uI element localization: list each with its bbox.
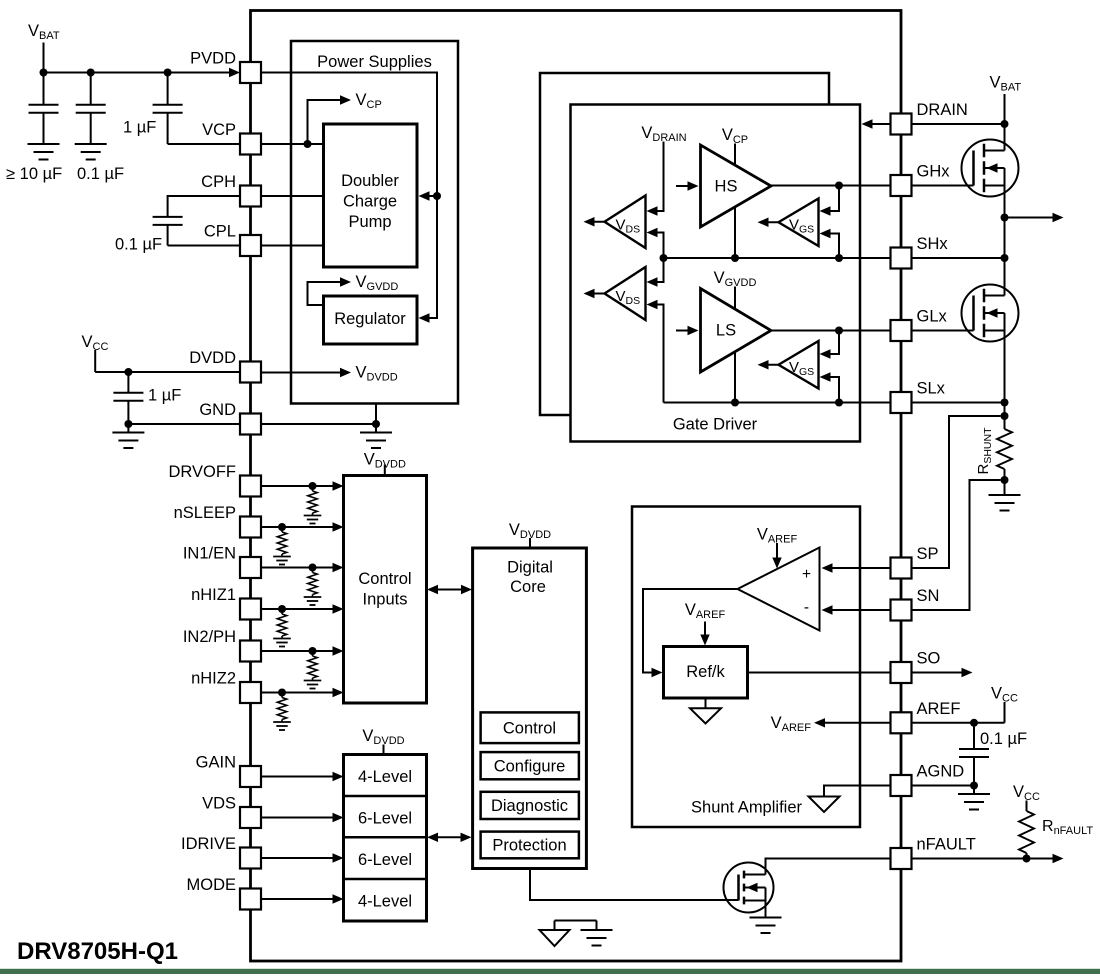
svg-text:6-Level: 6-Level [358, 809, 412, 827]
svg-text:DRVOFF: DRVOFF [168, 463, 236, 481]
regulator label [334, 310, 406, 328]
wire VCC to RnFAULT [1026, 801, 1028, 812]
wire GHx to HS fet gate [911, 185, 974, 187]
ground triangle below refk [690, 698, 721, 724]
node VAREF above sense amp [757, 526, 798, 546]
wire AREF to VAREF arrow [814, 718, 890, 727]
resistor RSHUNT [997, 429, 1012, 469]
level stack divider 3 [344, 878, 427, 881]
pin nSLEEP [240, 517, 261, 538]
svg-text:4-Level: 4-Level [358, 892, 412, 910]
arrowhead SHx into VDS ls [647, 277, 658, 286]
ground below AREF cap [958, 794, 990, 810]
wire RnFAULT to nFAULT line [1026, 853, 1028, 859]
wire flying cap to CPL [168, 225, 240, 246]
wire VBAT to HS fet drain [1004, 94, 1006, 151]
resistor pulldown nHIZ1 [277, 609, 286, 639]
pin label SP [917, 545, 939, 563]
wire VAREF into sense amp [772, 543, 781, 569]
wire GLx to LS fet gate [911, 330, 974, 332]
svg-text:DRAIN: DRAIN [917, 101, 968, 119]
svg-text:SN: SN [917, 587, 940, 605]
arrowhead nHIZ1 into control inputs [333, 604, 344, 613]
transistor nFAULT open drain [724, 863, 774, 913]
pin IN1/EN [240, 557, 261, 578]
junction GLx [835, 327, 843, 335]
digital core label [507, 559, 553, 597]
pin label nHIZ1 [191, 586, 236, 604]
svg-text:AGND: AGND [917, 763, 965, 781]
svg-text:HS: HS [715, 178, 738, 196]
power supplies label [317, 53, 432, 71]
junction on PVDD bus at C2 [87, 69, 95, 77]
vds ls label [616, 288, 641, 307]
ground below C2 [75, 144, 107, 160]
svg-text:VAREF: VAREF [685, 601, 726, 621]
pin VDS [240, 807, 261, 828]
ground below nFAULT fet [750, 918, 782, 934]
node VDVDD above digital core [509, 521, 551, 541]
svg-text:Regulator: Regulator [334, 310, 406, 328]
pin IN2/PH [240, 641, 261, 662]
node VBAT right [990, 74, 1022, 94]
svg-text:DVDD: DVDD [189, 349, 236, 367]
pin MODE [240, 889, 261, 910]
ground below RSHUNT [989, 495, 1021, 511]
label 6-Level VDS [358, 809, 412, 827]
svg-text:VCP: VCP [356, 91, 382, 111]
junction on PVDD bus at C1 [40, 69, 48, 77]
doubler charge pump label [341, 172, 399, 231]
wire VCP to VCP rail label [308, 100, 341, 144]
junction DVDD cap top [124, 368, 132, 376]
protection sub-block label [492, 837, 566, 855]
svg-text:VCC: VCC [991, 685, 1018, 705]
svg-text:nHIZ2: nHIZ2 [191, 670, 236, 688]
vds hs output arrow [584, 217, 605, 226]
node VDVDD rail label [356, 364, 398, 384]
doubler charge pump block U-CP [324, 124, 418, 267]
current sense amp [738, 548, 820, 631]
wire nFAULT fet drain to pin [766, 859, 891, 875]
arrowhead VDVDD rail [340, 368, 351, 377]
svg-text:VCP: VCP [202, 121, 236, 139]
minus input label [804, 599, 809, 616]
pin label SLx [917, 380, 946, 398]
wire AGND to ground triangle [824, 786, 890, 797]
wire VDVDD to digital core [529, 538, 531, 548]
ground below C5 [112, 433, 144, 449]
chip outline DRV8705H-Q1 [251, 11, 902, 962]
svg-text:RSHUNT: RSHUNT [975, 427, 994, 475]
arrowhead IN2/PH into control inputs [333, 646, 344, 655]
gate driver back block [540, 73, 829, 415]
pin label GLx [917, 308, 948, 326]
svg-text:VAREF: VAREF [757, 526, 798, 546]
pin label AGND [917, 763, 965, 781]
vds comparator ls [605, 267, 646, 320]
svg-text:VDVDD: VDVDD [509, 521, 551, 541]
pin label DRAIN [917, 101, 968, 119]
node VCC at nFAULT [1013, 783, 1040, 803]
refk block [664, 647, 748, 699]
wire GAIN to level stack [261, 776, 333, 778]
value label 1uF DVDD [148, 387, 181, 405]
wire SHx pin to phase node [911, 257, 1005, 259]
pin label AREF [917, 700, 961, 718]
node VDRAIN label [641, 124, 686, 144]
junction PVDD feed to doubler [433, 192, 441, 200]
pin IDRIVE [240, 848, 261, 869]
wire nHIZ1 to control inputs [261, 608, 333, 610]
svg-text:PVDD: PVDD [190, 50, 236, 68]
arrowhead nHIZ2 into control inputs [333, 688, 344, 697]
hs driver amp [701, 145, 772, 227]
resistor pulldown DRVOFF [308, 486, 317, 516]
junction AREF cap [970, 719, 978, 727]
svg-text:RnFAULT: RnFAULT [1042, 818, 1093, 837]
wire ground pair link [555, 921, 597, 931]
control sub-block [481, 712, 579, 743]
svg-text:4-Level: 4-Level [358, 768, 412, 786]
junction nSLEEP pulldown [278, 523, 286, 531]
svg-text:Protection: Protection [492, 837, 566, 855]
vgs comparator hs [779, 199, 819, 247]
wire GND pin to cap [128, 423, 240, 425]
node VAREF above refk [685, 601, 726, 621]
wire power supplies block to GND [375, 404, 377, 425]
ground pulldown DRVOFF [304, 516, 322, 524]
wire VBAT to PVDD bus [44, 43, 230, 73]
wire CPH to flying cap [168, 196, 240, 217]
junction nFAULT [1023, 855, 1031, 863]
pin label SHx [917, 235, 949, 253]
pin label GHx [917, 163, 951, 181]
pin label SN [917, 587, 940, 605]
svg-text:VDVDD: VDVDD [364, 451, 406, 471]
vgs hs label [789, 217, 814, 236]
svg-text:VBAT: VBAT [28, 22, 60, 42]
pin label IN2/PH [183, 628, 236, 646]
ground triangle digital [540, 930, 570, 946]
svg-text:Power Supplies: Power Supplies [317, 53, 432, 71]
ground pulldown nHIZ1 [273, 639, 291, 647]
wire VDVDD to level stack [383, 745, 385, 755]
pin SHx [891, 248, 912, 269]
svg-text:0.1 µF: 0.1 µF [115, 236, 162, 254]
svg-text:VDVDD: VDVDD [362, 727, 404, 747]
pin label nSLEEP [174, 504, 236, 522]
svg-text:LS: LS [716, 322, 736, 340]
junction SLx at VGVDD [731, 399, 739, 407]
wire SLx to VDS ls input [657, 305, 664, 403]
svg-text:Inputs: Inputs [363, 591, 408, 609]
wire branch to doubler right [429, 195, 437, 197]
svg-text:1 µF: 1 µF [123, 119, 156, 137]
svg-text:VGVDD: VGVDD [356, 273, 399, 293]
svg-text:SHx: SHx [917, 235, 949, 253]
node VBAT left [28, 22, 60, 42]
wire PVDD internal feed [261, 73, 437, 319]
svg-text:VBAT: VBAT [990, 74, 1022, 94]
arrowhead SN into sense amp [822, 605, 833, 614]
ground pulldown nHIZ2 [273, 722, 291, 730]
node VGVDD rail label [356, 273, 399, 293]
bottom green bar [0, 969, 1100, 974]
pin SLx [891, 392, 912, 413]
arrowhead into regulator right [419, 313, 430, 322]
shunt amplifier block [632, 507, 860, 828]
svg-text:Configure: Configure [494, 757, 566, 775]
svg-text:Core: Core [510, 578, 546, 596]
pin DRAIN [891, 114, 912, 135]
wire HS fet source to SHx [1004, 186, 1006, 259]
junction SHx VDS [660, 254, 668, 262]
pin nHIZ1 [240, 599, 261, 620]
value label 1uF [123, 119, 156, 137]
wire VCC to DVDD line [95, 350, 240, 372]
wire SP kelvin to shunt top [911, 416, 1001, 568]
pin label nHIZ2 [191, 670, 236, 688]
wire nSLEEP to control inputs [261, 526, 333, 528]
control inputs block [344, 476, 427, 704]
wire SHx to VDS ls input [657, 258, 664, 282]
junction GND [372, 420, 380, 433]
pin nHIZ2 [240, 682, 261, 703]
junction VCP branch [304, 140, 312, 148]
pin GHx [891, 175, 912, 196]
wire DRAIN into gate driver [872, 123, 890, 125]
arrowhead SHx into VDS hs [647, 228, 658, 237]
gate driver front block [571, 105, 861, 442]
pin GAIN [240, 766, 261, 787]
vgs comparator ls [779, 341, 819, 389]
pin label DRVOFF [168, 463, 236, 481]
capacitor C4 0.1uF CPH-CPL [153, 217, 183, 225]
junction on PVDD bus at C3 [164, 69, 172, 77]
junction nHIZ1 pulldown [278, 605, 286, 613]
svg-text:Doubler: Doubler [341, 172, 399, 190]
pin label SO [917, 650, 941, 668]
wire SO output [911, 668, 973, 677]
level stack divider 2 [344, 836, 427, 839]
arrowhead DRAIN into gate driver [862, 119, 873, 128]
wire DVDD pin to VDVDD rail [261, 372, 341, 374]
vgs hs output arrow [758, 218, 779, 227]
svg-text:Pump: Pump [348, 213, 391, 231]
junction DRVOFF pulldown [309, 482, 317, 490]
pin CPL [240, 235, 261, 256]
control inputs label [358, 570, 411, 609]
wire LS fet source to SLx [1004, 331, 1006, 403]
wire CPH pin to doubler [261, 195, 324, 197]
pin SP [891, 558, 912, 579]
diagnostic sub-block label [491, 797, 568, 815]
wire SHx net [664, 257, 891, 259]
svg-text:DRV8705H-Q1: DRV8705H-Q1 [17, 938, 178, 965]
transistor HS external FET [962, 140, 1019, 197]
value label 0.1uF AREF [980, 730, 1027, 748]
wire SHx to VDS hs input [657, 233, 664, 259]
label RSHUNT [975, 427, 994, 475]
svg-text:0.1 µF: 0.1 µF [77, 165, 124, 183]
wire VDRAIN to VDS comparator [657, 142, 664, 212]
pin SO [891, 662, 912, 683]
wire GHx to VGS hs input [830, 186, 839, 212]
pin AGND [891, 775, 912, 796]
pin SN [891, 600, 912, 621]
wire MODE to level stack [261, 898, 333, 900]
pin label nFAULT [917, 836, 976, 854]
wire GND pin to ground [261, 423, 376, 425]
plus input label [802, 566, 811, 583]
wire IDRIVE to level stack [261, 857, 333, 859]
arrowhead nSLEEP into control inputs [333, 522, 344, 531]
pin VCP [240, 134, 261, 155]
ground pulldown IN2/PH [304, 681, 322, 689]
wire IN1/EN to control inputs [261, 567, 333, 569]
capacitor C3 1uF PVDD-VCP [153, 73, 183, 145]
arrowhead VGVDD rail [340, 277, 351, 286]
svg-text:GHx: GHx [917, 163, 951, 181]
arrowhead GAIN into level stack [333, 772, 344, 781]
configure sub-block label [494, 757, 566, 775]
arrowhead SP into sense amp [822, 563, 833, 572]
pin label VDS [202, 795, 236, 813]
svg-text:-: - [804, 599, 809, 616]
pin label MODE [187, 876, 237, 894]
wire VCC to AREF line [911, 702, 1005, 723]
digital core block [473, 548, 587, 869]
node VDVDD above level stack [362, 727, 404, 747]
junction SHx at VCP [731, 254, 739, 262]
svg-text:6-Level: 6-Level [358, 851, 412, 869]
svg-text:VDS: VDS [202, 795, 236, 813]
bidirectional arrow control inputs to digital core [427, 585, 472, 594]
chip name label DRV8705H-Q1 [17, 938, 178, 965]
pin AREF [891, 712, 912, 733]
svg-text:GND: GND [199, 401, 236, 419]
diagnostic sub-block [481, 792, 579, 819]
wire CPL pin to doubler [261, 245, 324, 247]
regulator block U-REG [324, 296, 418, 344]
arrowhead into PVDD pin [229, 68, 240, 77]
svg-text:Charge: Charge [343, 193, 397, 211]
shunt amplifier label [691, 799, 802, 817]
svg-text:IN2/PH: IN2/PH [183, 628, 236, 646]
label 6-Level IDRIVE [358, 851, 412, 869]
wire VDVDD to control inputs [384, 465, 386, 476]
ls driver label [716, 322, 736, 340]
wire nFAULT output [911, 854, 1064, 863]
svg-text:CPL: CPL [204, 223, 236, 241]
svg-text:SP: SP [917, 545, 939, 563]
arrow into LS driver [676, 326, 699, 335]
vgs ls output arrow [758, 360, 779, 369]
wire DRAIN pin to VBAT line [911, 123, 1005, 125]
svg-text:0.1 µF: 0.1 µF [980, 730, 1027, 748]
arrowhead SLx into VDS ls [647, 300, 658, 309]
pin label VCP [202, 121, 236, 139]
svg-text:CPH: CPH [201, 173, 236, 191]
pin nFAULT [891, 848, 912, 869]
node VCC at AREF [991, 685, 1018, 705]
node VGVDD above LS [714, 269, 757, 289]
wire GLx to VGS ls input [830, 331, 839, 355]
wire SHx to VGS hs input [830, 234, 839, 259]
svg-text:MODE: MODE [187, 876, 237, 894]
level stack divider 1 [344, 795, 427, 798]
svg-text:IN1/EN: IN1/EN [183, 545, 236, 563]
wire AGND pin to cap [911, 785, 974, 787]
wire phase to LS fet drain [1004, 258, 1006, 296]
wire sense amp output to refk [643, 589, 738, 673]
node VCC at DVDD [82, 333, 109, 353]
svg-text:GAIN: GAIN [196, 754, 236, 772]
junction phase output [1001, 214, 1009, 222]
ground earth digital [581, 930, 613, 946]
svg-text:Shunt Amplifier: Shunt Amplifier [691, 799, 802, 817]
junction nHIZ2 pulldown [278, 689, 286, 697]
wire nFAULT fet source to ground [765, 901, 767, 918]
pin GLx [891, 320, 912, 341]
pin label PVDD [190, 50, 236, 68]
wire C3 to VCP pin [168, 143, 240, 145]
junction IN1/EN pulldown [309, 564, 317, 572]
transistor LS external FET [962, 285, 1019, 342]
ls driver amp [701, 289, 772, 373]
arrowhead DRVOFF into control inputs [333, 481, 344, 490]
junction AGND cap [970, 782, 978, 795]
wire SLx to shunt [1004, 403, 1006, 430]
wire DRVOFF to control inputs [261, 485, 333, 487]
arrowhead GLx into VGS ls [820, 349, 831, 358]
pin GND [240, 414, 261, 435]
gate driver label [673, 416, 758, 434]
ground pulldown IN1/EN [304, 597, 322, 605]
pin label CPL [204, 223, 236, 241]
svg-text:VAREF: VAREF [771, 714, 812, 734]
arrowhead SLx into VGS ls [820, 372, 831, 381]
wire VCP supply to SHx [734, 144, 736, 259]
wire IN2/PH to control inputs [261, 650, 333, 652]
capacitor C1 >=10uF [29, 73, 59, 145]
wire SP into plus input [832, 567, 890, 569]
pin DVDD [240, 362, 261, 383]
wire SLx to VGS ls input [830, 377, 839, 403]
svg-text:VCC: VCC [1013, 783, 1040, 803]
arrowhead into refk [652, 668, 663, 677]
arrowhead IN1/EN into control inputs [333, 563, 344, 572]
pin label IDRIVE [181, 835, 236, 853]
label 4-Level GAIN [358, 768, 412, 786]
svg-text:Diagnostic: Diagnostic [491, 797, 568, 815]
wire SLx pin to source [911, 402, 1005, 404]
pin PVDD [240, 62, 261, 83]
protection sub-block [481, 832, 579, 859]
ground pulldown nSLEEP [273, 557, 291, 565]
arrowhead VDRAIN into VDS hs [647, 206, 658, 215]
level selector stack block [344, 755, 427, 922]
pin label IN1/EN [183, 545, 236, 563]
phase output arrow [1005, 213, 1064, 222]
junction IN2/PH pulldown [309, 647, 317, 655]
ground triangle AGND [809, 797, 840, 813]
node VCP rail label [356, 91, 382, 111]
svg-text:+: + [802, 566, 811, 583]
value label >=10uF [6, 165, 62, 183]
svg-text:AREF: AREF [917, 700, 961, 718]
